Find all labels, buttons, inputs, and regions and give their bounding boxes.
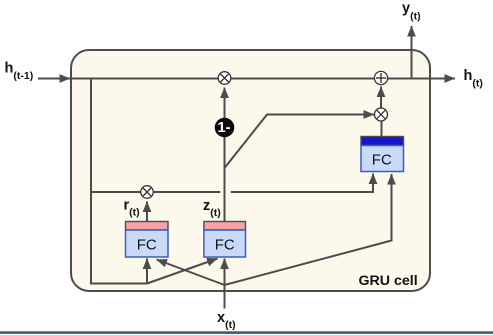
wire mid line continuing to g FC <box>231 174 373 193</box>
FC layer r: body <box>126 230 169 257</box>
wire mid line from left vertical to crossing gap <box>91 191 220 193</box>
bottom blue divider bar <box>0 331 493 334</box>
gate: output multiply (x) circle <box>375 108 388 121</box>
wire x branch diagonal into r FC <box>157 260 225 286</box>
wire h branch diagonal into z FC <box>147 259 218 284</box>
svg-text:FC: FC <box>372 152 392 169</box>
wire h(t-1) input arrow <box>38 78 70 80</box>
wire z vertical from z FC up to top multiply gate <box>224 88 226 222</box>
svg-text:GRU cell: GRU cell <box>359 273 418 289</box>
FC layer z: header <box>204 222 246 231</box>
wire z branch to output multiply gate <box>225 115 375 169</box>
gate: r multiply (x) circle <box>141 186 154 199</box>
FC layer z: body <box>204 230 246 257</box>
gate: add (+) circle <box>374 71 387 84</box>
wire g FC top to output multiply gate <box>381 122 383 137</box>
FC layer r: header <box>126 222 169 231</box>
gate: top multiply (x) circle <box>218 72 231 85</box>
wire y(t) branch arrow <box>411 26 413 79</box>
svg-text:FC: FC <box>215 236 235 253</box>
FC layer g: body <box>361 146 404 172</box>
wire h branch up into r FC <box>146 259 148 284</box>
wire main h line with h(t) output arrow <box>71 78 455 80</box>
wire left vertical h(t-1) branch down and bottom run <box>91 78 147 284</box>
node: 1- circle <box>215 118 235 138</box>
svg-text:1-: 1- <box>217 119 230 136</box>
GRU cell body <box>71 50 430 291</box>
wire r FC output arrow into r-gate <box>146 202 148 222</box>
svg-text:FC: FC <box>137 236 157 253</box>
wire x(t) input arrow into z FC <box>224 259 226 309</box>
wire x branch long diagonal into g FC <box>225 174 392 285</box>
wire output multiply gate to add gate <box>380 87 382 108</box>
FC layer g: header <box>361 137 404 146</box>
